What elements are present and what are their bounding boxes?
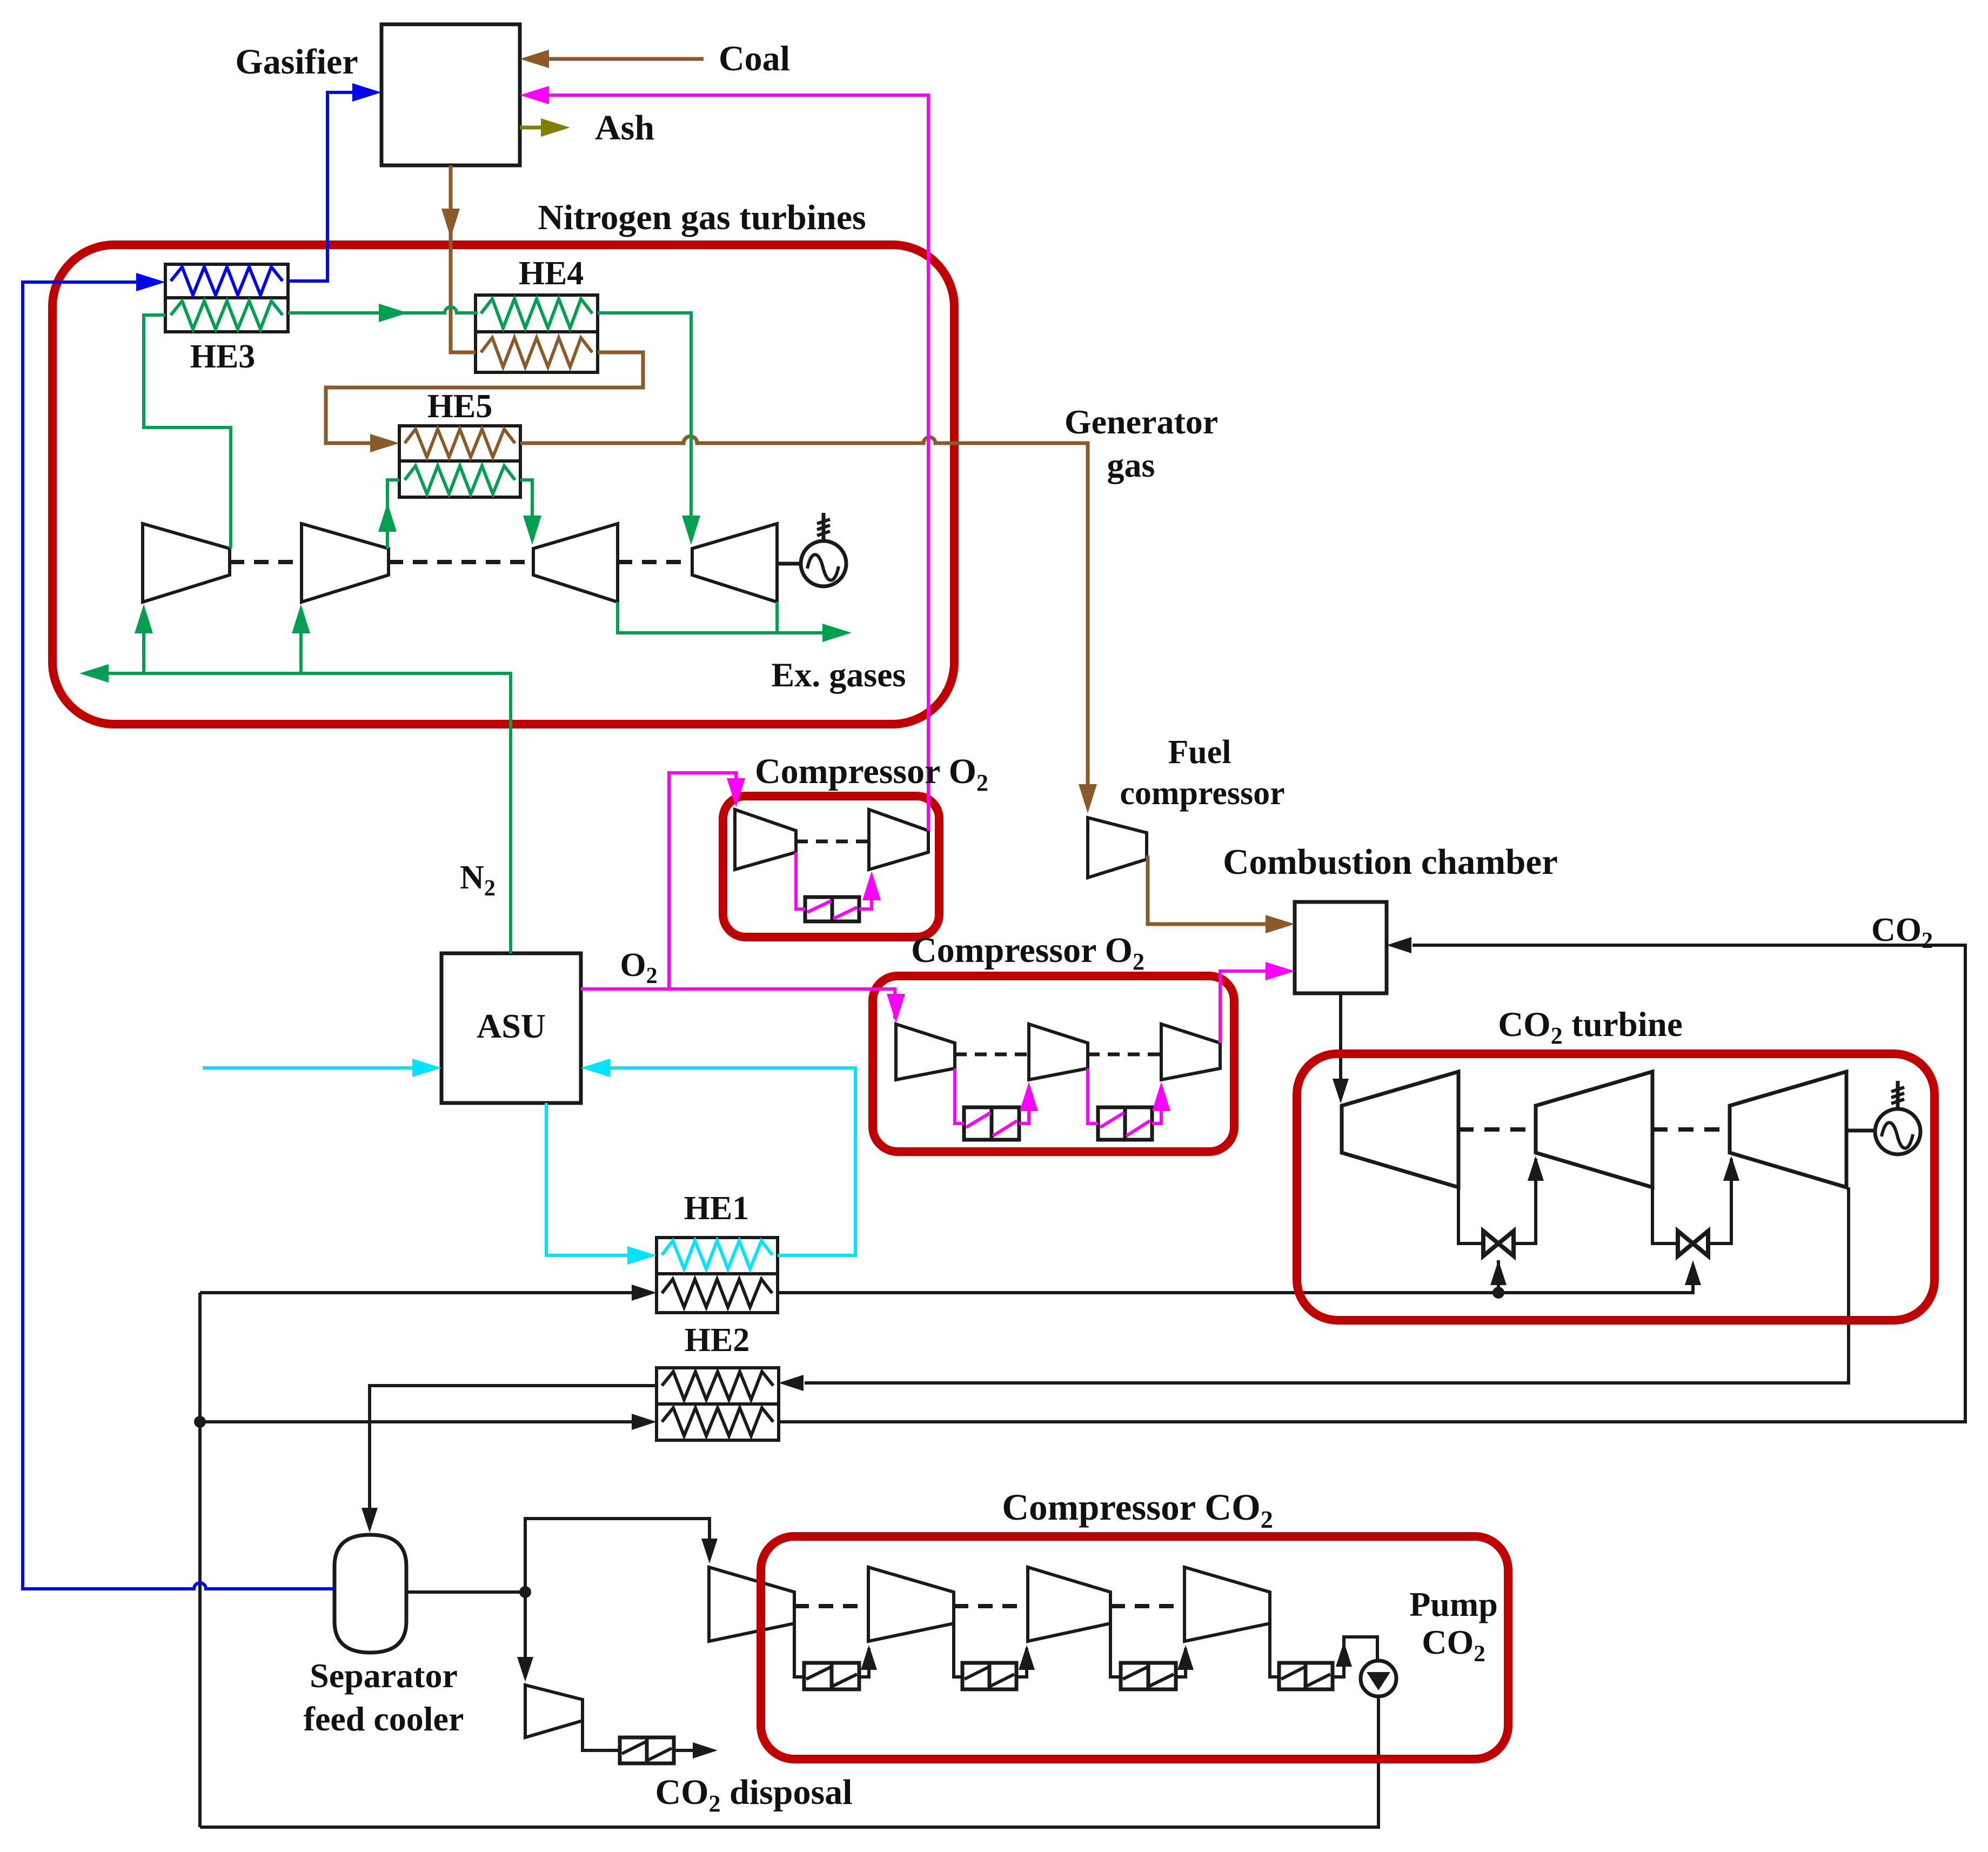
svg-text:CO2 disposal: CO2 disposal [655,1773,853,1817]
CO2 turbine stage 3 [1730,1072,1846,1187]
cyan ASU to HE1 [546,1103,657,1265]
label ASU [477,1007,546,1045]
svg-text:ASU: ASU [477,1007,546,1045]
label HE2 [685,1322,750,1359]
generator gas line [520,437,1097,814]
pipe separator to junction [406,1590,525,1594]
svg-text:feed cooler: feed cooler [304,1700,464,1738]
cyan HE1 to ASU return [581,1059,855,1255]
O2 compressor B stage 2 [1029,1024,1088,1080]
O2 compressor A intercooler [805,897,859,921]
O2 compressor A shaft [796,840,869,844]
N2 shaft dashed [230,560,692,564]
compressor B interstage line 1 [955,1068,1038,1124]
label Nitrogen gas turbines [538,198,866,237]
junction dot C [519,1586,531,1598]
CO2 compressor stage 2 [868,1567,954,1641]
svg-text:HE1: HE1 [684,1190,749,1227]
green HE4 to turbine line [598,313,700,545]
svg-text:Combustion chamber: Combustion chamber [1223,842,1558,882]
svg-text:HE4: HE4 [519,255,584,292]
green N2 header [79,664,511,953]
label HE5 [427,388,493,425]
compressor B interstage line 2 [1088,1068,1170,1124]
red box O2 compressor B [873,976,1234,1152]
N2 turbine stage 2 [692,524,777,602]
label Ash [595,108,654,148]
CO2 compressor stage 3 [1028,1567,1110,1641]
label Fuel compressor [1120,734,1284,812]
CO2 intercooler 1 [804,1663,859,1689]
label HE4 [519,255,584,292]
label Generator gas [1065,403,1218,484]
label Compressor O2 B [911,931,1144,975]
green exhaust header [618,602,852,642]
svg-text:Gasifier: Gasifier [235,42,358,82]
compressor A interstage line [796,852,881,909]
CO2 generator shaft [1846,1129,1873,1133]
heat exchanger HE1 [657,1238,778,1313]
svg-text:HE2: HE2 [685,1322,750,1359]
green C1 to HE3 line [144,315,231,549]
compressor A discharge to gasifier [520,86,928,831]
CO2 train pipes [794,1623,1377,1677]
label Combustion chamber [1223,842,1558,882]
pipe to HE1 cold side [200,1285,657,1301]
CO2 disposal expander [525,1685,583,1737]
fuel compressor [1088,818,1147,878]
svg-text:CO2 turbine: CO2 turbine [1498,1005,1683,1049]
CO2 compressor stage 1 [709,1567,794,1641]
cyan air intake [203,1059,441,1077]
CO2 intercooler 2 [962,1663,1016,1689]
CO2 disposal cooler [620,1737,674,1763]
blue water loop [23,273,334,1589]
valve V2 [1678,1231,1708,1256]
CO2 compressor shaft dashed [794,1604,1184,1608]
N2 generator shaft [777,562,799,566]
ash outlet [520,118,570,137]
O2 compressor B stage 1 [896,1024,955,1080]
red box CO2 turbine [1297,1054,1935,1320]
CO2 turbine stage 2 [1536,1072,1652,1187]
svg-text:Coal: Coal [719,39,790,78]
O2 compressor A stage 1 [735,810,796,870]
label Compressor O2 A [755,752,988,796]
O2 compressor A stage 2 [869,810,928,870]
svg-text:compressor: compressor [1120,775,1284,812]
ASU box [441,953,581,1103]
green HE5 to turbine line [520,480,541,545]
svg-text:Compressor O2: Compressor O2 [911,931,1144,975]
N2 compressor stage 1 [143,524,230,602]
svg-text:Ash: Ash [595,108,654,148]
svg-text:Compressor CO2: Compressor CO2 [1002,1487,1273,1533]
svg-text:Pump: Pump [1409,1585,1498,1623]
N2 compressor stage 2 [302,524,389,602]
compressor B discharge to chamber [1220,962,1295,1043]
red box nitrogen gas turbines [52,245,954,724]
green C2 to HE5 line [378,480,399,549]
pipe HE4 to HE5 brown [326,352,643,452]
svg-text:HE5: HE5 [427,388,493,425]
svg-text:gas: gas [1107,446,1155,484]
junction dot A [194,1416,206,1428]
label O2 [620,947,657,988]
N2 turbine stage 1 [533,524,618,602]
CO2 intercooler 4 [1279,1663,1333,1689]
O2 compressor B stage 3 [1161,1024,1220,1080]
pipe junction to disposal [517,1592,533,1682]
heat exchanger HE5 [399,426,520,497]
pipe pump return riser [198,1293,202,1827]
CO2 turbine shaft dashed [1458,1127,1730,1132]
red box O2 compressor A [723,796,939,937]
junction dot B [1492,1287,1504,1299]
separator feed cooler vessel [334,1535,406,1653]
label N2 [460,859,496,901]
red box CO2 compressor [761,1536,1508,1759]
CO2 turbine stage 1 [1342,1072,1458,1187]
valve V1 feed riser [1497,1260,1500,1293]
green C2 suction [292,604,310,673]
svg-text:HE3: HE3 [190,338,256,375]
label CO2 top right [1871,912,1933,953]
O2 branch to compressor A [669,773,745,989]
blue HE3 to gasifier [288,83,381,281]
pump outlet pipe [200,1696,1378,1827]
label Gasifier [235,42,358,82]
reheat pipe to turbine2 [1513,1156,1544,1243]
heat exchanger HE3 [165,264,288,332]
fuel compressor outlet [1148,855,1295,933]
turbine2 exhaust pipe [1652,1187,1678,1243]
svg-text:Ex. gases: Ex. gases [772,656,906,694]
green C1 suction [135,604,153,673]
label HE3 [190,338,256,375]
CO2 disposal outlet [674,1742,718,1759]
CO2 intercooler 3 [1121,1663,1176,1689]
label HE1 [684,1190,749,1227]
green T4 exhaust [775,602,779,633]
CO2 disposal pipe [583,1721,620,1750]
pump CO2 [1361,1661,1396,1696]
svg-text:Compressor O2: Compressor O2 [755,752,988,796]
CO2 compressor stage 4 [1184,1567,1270,1641]
pipe junction to CO2 compressor [525,1519,718,1592]
heat exchanger HE4 [476,295,598,372]
label Ex. gases [772,656,906,694]
label CO2 disposal [655,1773,853,1817]
O2 line ASU to compressor B [581,989,905,1023]
label Coal [719,39,790,78]
svg-text:Fuel: Fuel [1168,734,1231,771]
label Pump CO2 [1409,1585,1498,1667]
reheat pipe to turbine3 [1708,1156,1739,1243]
gasifier product line [441,165,476,352]
pipe chamber to CO2 turbine [1333,993,1349,1104]
pipe CO2 recycle to chamber [779,937,1965,1422]
label Separator feed cooler [304,1656,464,1738]
O2 compressor B intercooler 1 [964,1107,1019,1140]
green HE3 to HE4 line [288,304,478,322]
pipe turbine3 exhaust to HE2 [779,1187,1849,1391]
N2 generator G1 [801,513,846,586]
svg-text:Generator: Generator [1065,403,1218,441]
svg-text:Nitrogen gas turbines: Nitrogen gas turbines [538,198,866,237]
CO2 generator G2 [1875,1081,1920,1154]
O2 compressor B shaft [955,1053,1161,1057]
gasifier box [381,24,520,165]
svg-text:Separator: Separator [310,1656,458,1695]
label Compressor CO2 [1002,1487,1273,1533]
O2 compressor B intercooler 2 [1098,1107,1152,1140]
valve V1 [1483,1231,1514,1256]
combustion chamber box [1295,902,1387,993]
pipe to HE2 cold side [200,1414,657,1430]
coal feed line [520,50,704,68]
heat exchanger HE2 [657,1368,779,1440]
turbine1 exhaust pipe [1458,1187,1484,1243]
label CO2 turbine [1498,1005,1683,1049]
pipe HE2 to separator [362,1386,657,1533]
pipe HE1 to reheat valves [778,1260,1701,1293]
